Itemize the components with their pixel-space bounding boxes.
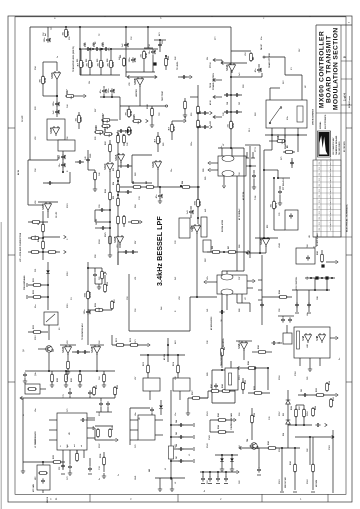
svg-text:1 of 4: 1 of 4	[343, 93, 347, 101]
svg-text:SIGNAL: SIGNAL	[319, 121, 322, 129]
wire	[48, 325, 50, 340]
svg-text:TEST POINT: TEST POINT	[162, 90, 164, 101]
wire	[248, 392, 270, 394]
ground bar	[88, 473, 92, 475]
svg-text:C37: C37	[239, 277, 241, 280]
wire stub	[279, 186, 281, 189]
ground	[108, 252, 112, 257]
ground	[78, 382, 82, 387]
wire	[112, 344, 148, 346]
wire pin	[236, 294, 238, 303]
wire	[111, 94, 113, 97]
wire stub	[100, 398, 102, 401]
capacitor C42	[94, 47, 99, 51]
junction	[217, 471, 219, 473]
resistor R166	[247, 367, 257, 370]
modulator U7 lower	[217, 275, 247, 294]
resistor R26	[78, 114, 81, 124]
relay RL1	[266, 100, 307, 128]
svg-text:R163: R163	[317, 251, 319, 255]
wire	[165, 56, 167, 70]
wire	[29, 27, 31, 160]
resistor R160	[267, 447, 277, 450]
wire	[119, 244, 121, 248]
svg-text:U14A: U14A	[226, 64, 229, 70]
svg-text:R61: R61	[253, 57, 255, 60]
capacitor C71	[68, 390, 72, 395]
wire	[301, 75, 303, 100]
junction	[263, 169, 265, 171]
wire	[94, 428, 96, 440]
svg-text:C56: C56	[64, 154, 67, 159]
resistor R22	[89, 59, 92, 69]
junction	[109, 209, 111, 211]
revision table row	[313, 214, 341, 216]
wire	[247, 252, 266, 254]
junction	[48, 370, 50, 372]
svg-text:R22: R22	[91, 61, 94, 66]
capacitor C83	[257, 467, 261, 472]
svg-text:R177: R177	[192, 390, 194, 395]
svg-text:U12A: U12A	[152, 161, 155, 167]
resistor R91	[117, 134, 120, 144]
wire	[40, 388, 46, 390]
zone tick top	[211, 15, 213, 18]
svg-text:R132: R132	[117, 385, 119, 389]
ground	[150, 122, 154, 127]
svg-text:X1: X1	[279, 342, 281, 344]
junction	[196, 296, 198, 298]
connector circle	[263, 56, 265, 58]
capacitor C95	[100, 226, 105, 230]
resistor R157	[303, 408, 306, 418]
wire	[190, 96, 198, 98]
resistor R143	[217, 419, 227, 422]
resistor R107	[109, 143, 112, 153]
wire	[109, 232, 111, 252]
comparator resistor	[297, 331, 300, 349]
svg-text:TR4: TR4	[246, 439, 249, 442]
wire	[283, 151, 295, 153]
wire	[88, 267, 102, 269]
wire pin	[319, 358, 321, 366]
capacitor C41	[85, 47, 90, 51]
wire	[264, 169, 278, 171]
capacitor C92	[288, 317, 292, 322]
svg-text:BOARD TRANSMIT: BOARD TRANSMIT	[326, 35, 333, 103]
svg-text:R88: R88	[239, 309, 241, 312]
svg-text:R133: R133	[53, 455, 55, 459]
wire	[42, 490, 44, 493]
wire	[238, 367, 268, 369]
wire stub	[69, 396, 71, 398]
wire stub	[103, 371, 105, 374]
filter FL1	[25, 384, 40, 394]
wire stub	[284, 135, 286, 138]
svg-text:R52: R52	[200, 125, 202, 128]
wire pin	[155, 434, 163, 436]
capacitor C93	[271, 341, 276, 345]
svg-text:R157: R157	[299, 406, 301, 410]
junction	[96, 370, 98, 372]
wire	[28, 221, 48, 223]
svg-text:U4B: U4B	[306, 344, 309, 348]
resistor R23	[100, 59, 103, 69]
svg-text:COMPRESSOR GAIN: COMPRESSOR GAIN	[230, 412, 233, 430]
svg-text:R175: R175	[105, 232, 107, 237]
resistor R175	[109, 235, 112, 245]
junction	[303, 424, 305, 426]
wire pin	[130, 419, 138, 421]
resistor R93	[117, 169, 120, 179]
wire trunk	[230, 27, 232, 148]
capacitor C108	[88, 466, 92, 471]
zone tick bottom	[261, 494, 263, 502]
capacitor C25	[257, 67, 261, 72]
svg-text:U15B: U15B	[134, 78, 137, 84]
svg-text:C33: C33	[175, 241, 177, 244]
junction	[271, 134, 273, 136]
svg-text:C62: C62	[99, 341, 101, 344]
driver resistor	[229, 373, 232, 385]
wire stub	[128, 106, 130, 109]
wire	[43, 251, 60, 253]
svg-text:R112: R112	[67, 272, 69, 276]
svg-text:C55: C55	[58, 109, 61, 114]
diode D12	[159, 405, 163, 408]
wire stub	[51, 371, 53, 374]
svg-text:AF IN: AF IN	[17, 169, 20, 175]
net arrow	[204, 280, 206, 283]
revision table row	[313, 203, 341, 205]
junction	[295, 424, 297, 426]
junction	[89, 48, 91, 50]
resistor R176	[27, 388, 37, 391]
wire	[236, 176, 238, 271]
svg-text:R95: R95	[113, 196, 115, 199]
net arrow	[127, 75, 129, 78]
wire stub	[57, 155, 59, 160]
wire stub	[202, 472, 204, 477]
wire	[212, 402, 235, 404]
wire	[109, 140, 111, 162]
ground bar	[257, 474, 261, 476]
op-amp U13B	[93, 345, 100, 355]
junction	[202, 471, 204, 473]
resistor R41	[123, 57, 126, 67]
svg-text:TX MONITOR LEVEL (SEE P3): TX MONITOR LEVEL (SEE P3)	[73, 46, 75, 72]
wire stub	[282, 316, 284, 317]
wire stub	[217, 472, 219, 477]
svg-text:R151: R151	[239, 375, 241, 380]
modulator U7 upper	[218, 156, 246, 176]
wire	[177, 355, 179, 365]
resistor R142	[221, 390, 231, 393]
svg-text:C38: C38	[207, 341, 209, 344]
wire	[126, 71, 155, 73]
revision table row	[313, 165, 341, 167]
net arrow	[221, 61, 223, 64]
svg-text:U16: U16	[35, 201, 37, 204]
wire stub	[253, 170, 255, 173]
net arrow	[210, 125, 212, 128]
ground	[252, 184, 256, 189]
junction	[331, 277, 333, 279]
wire	[214, 96, 222, 98]
svg-text:RF CIRCUITS: RF CIRCUITS	[344, 140, 346, 152]
wire	[231, 50, 251, 52]
junction	[62, 171, 64, 173]
ground bar	[26, 283, 28, 287]
svg-text:U4A: U4A	[302, 335, 305, 340]
wire	[67, 354, 69, 360]
wire	[267, 368, 269, 390]
wire	[261, 297, 263, 325]
svg-text:L2: L2	[175, 482, 177, 484]
svg-text:R42: R42	[145, 52, 148, 57]
timer U9	[285, 210, 298, 230]
junction	[170, 436, 172, 438]
svg-text:R47: R47	[173, 125, 176, 130]
svg-text:100n: 100n	[108, 88, 110, 93]
zone tick right	[346, 381, 352, 383]
ground	[170, 486, 174, 491]
resistor R62	[230, 120, 233, 130]
wire top rail	[55, 397, 115, 399]
resistor R98	[130, 221, 140, 224]
wire	[172, 120, 184, 122]
junction	[221, 454, 223, 456]
svg-text:R101: R101	[67, 203, 69, 208]
capacitor C75	[80, 418, 85, 422]
wire	[21, 397, 23, 399]
junction	[267, 367, 269, 369]
op-amp U11A	[117, 153, 124, 163]
wire trunk	[170, 390, 172, 480]
svg-text:0v: 0v	[118, 474, 120, 476]
wire	[287, 390, 289, 448]
wire	[330, 337, 336, 339]
svg-text:R121: R121	[71, 378, 73, 382]
junction	[47, 296, 49, 298]
wire	[28, 296, 48, 298]
junction	[170, 448, 172, 450]
svg-text:U18: U18	[175, 377, 177, 380]
svg-text:U13A: U13A	[62, 346, 65, 352]
junction	[209, 471, 211, 473]
svg-text:ON AIR / PTT MOD: ON AIR / PTT MOD	[268, 52, 271, 68]
svg-text:R118: R118	[107, 282, 109, 286]
op-amp U4A	[304, 333, 311, 343]
wire	[120, 162, 122, 168]
connector pin AF IN	[213, 95, 215, 98]
svg-text:U11B: U11B	[114, 236, 117, 242]
wire	[96, 354, 98, 371]
ground	[68, 470, 72, 475]
relay contact	[269, 122, 271, 124]
wire stub	[95, 209, 110, 211]
net arrow	[140, 220, 142, 223]
wire stub	[101, 279, 103, 284]
capacitor C98	[278, 189, 282, 194]
wire	[284, 57, 286, 75]
revision table row	[313, 198, 341, 200]
wire	[298, 394, 336, 396]
wire pin	[210, 162, 218, 164]
wire stub	[101, 268, 103, 271]
op-amp U11B	[116, 235, 123, 245]
svg-text:U13: U13	[67, 341, 69, 344]
resistor R158	[312, 407, 315, 417]
revision table frame	[313, 160, 341, 237]
svg-text:SCALE none: SCALE none	[348, 95, 351, 108]
wire	[143, 60, 145, 72]
junction	[87, 267, 89, 269]
wire pin	[299, 358, 301, 366]
junction	[56, 95, 58, 97]
resistor R132	[114, 386, 117, 396]
wire	[95, 439, 113, 441]
wire stub	[69, 388, 71, 390]
junction	[65, 26, 67, 28]
net arrow	[239, 446, 241, 449]
resistor R184	[284, 151, 294, 154]
title cell line	[341, 104, 352, 106]
resistor R118	[104, 283, 107, 293]
svg-text:100n: 100n	[53, 101, 55, 106]
title block top edge	[316, 24, 352, 26]
svg-text:C26: C26	[227, 102, 229, 105]
wire	[226, 271, 228, 275]
resistor R172	[129, 344, 139, 347]
junction	[294, 447, 296, 449]
wire input bar	[222, 62, 247, 64]
svg-text:R29: R29	[95, 125, 98, 130]
wire stub	[159, 187, 161, 193]
capacitor C58	[47, 181, 52, 185]
wire stub	[252, 152, 254, 158]
svg-text:R23: R23	[97, 59, 99, 62]
scan edge shadow	[0, 222, 2, 509]
wire	[326, 261, 336, 263]
wire stub	[171, 436, 193, 438]
wire stub	[94, 278, 96, 284]
net arrow	[253, 279, 255, 282]
resistor R61	[250, 52, 253, 62]
wire	[86, 419, 95, 421]
wire ladder trunk	[117, 132, 119, 265]
wire	[222, 270, 244, 272]
wire input bar	[236, 340, 252, 342]
trimmer RV2	[201, 217, 207, 237]
capacitor C76	[150, 407, 154, 412]
revision table row	[313, 209, 341, 211]
wire pin	[76, 450, 78, 458]
diode D11	[46, 270, 50, 273]
wire input bar	[60, 344, 76, 346]
wire	[284, 128, 286, 135]
ground	[66, 369, 70, 374]
svg-text:C81: C81	[307, 377, 309, 380]
wire	[207, 251, 248, 253]
svg-text:R81: R81	[163, 143, 165, 146]
wire stub	[65, 371, 67, 374]
svg-text:TX EN: TX EN	[210, 82, 212, 88]
resistor R45	[132, 120, 142, 123]
svg-text:D11: D11	[35, 269, 37, 272]
relay coil	[297, 106, 303, 122]
wire	[109, 171, 111, 232]
wire	[200, 397, 208, 399]
wire	[188, 397, 208, 399]
wire stub	[159, 478, 161, 486]
svg-text:R30: R30	[104, 127, 107, 132]
wire	[43, 182, 70, 184]
svg-text:C54: C54	[58, 101, 61, 106]
junction	[170, 460, 172, 462]
capacitor C102	[181, 75, 186, 79]
revision table row	[313, 225, 341, 227]
switch lever	[46, 314, 55, 322]
resistor R34	[42, 75, 45, 85]
svg-text:R156: R156	[291, 406, 293, 410]
wire	[211, 370, 213, 403]
junction	[230, 76, 232, 78]
wire stub	[79, 371, 81, 374]
wire	[265, 134, 307, 136]
revision table row	[313, 231, 341, 233]
wire	[271, 128, 273, 135]
ground bar	[193, 423, 195, 427]
svg-text:R117: R117	[114, 299, 116, 303]
junction	[254, 367, 256, 369]
wire stub	[123, 143, 125, 146]
net arrow	[148, 343, 150, 346]
ground	[278, 200, 282, 205]
revision table row	[313, 192, 341, 194]
wire pin	[49, 429, 57, 431]
ground	[93, 186, 97, 191]
wire	[25, 370, 30, 372]
wire stub	[209, 472, 211, 477]
wire	[179, 391, 181, 400]
svg-text:R131: R131	[96, 385, 98, 389]
svg-text:R157: R157	[279, 411, 281, 416]
resistor R85	[197, 198, 200, 208]
ground	[230, 466, 234, 471]
svg-text:R93: R93	[113, 168, 115, 171]
svg-text:C52: C52	[49, 37, 52, 42]
svg-text:R72: R72	[267, 225, 269, 228]
svg-text:C27: C27	[239, 102, 241, 105]
wire pin	[130, 439, 138, 441]
junction	[103, 96, 105, 98]
junction	[230, 111, 232, 113]
wire pin	[210, 169, 218, 171]
wire	[147, 355, 149, 365]
capacitor C56	[61, 154, 65, 159]
wire stub	[258, 64, 260, 67]
svg-text:1n0: 1n0	[239, 73, 241, 76]
wire stub	[190, 215, 192, 218]
wire	[332, 430, 334, 493]
wire	[120, 105, 165, 107]
svg-text:C56: C56	[67, 137, 69, 140]
junction	[197, 112, 199, 114]
zone tick right	[346, 127, 352, 129]
wire pin	[49, 419, 57, 421]
wire	[187, 398, 189, 410]
